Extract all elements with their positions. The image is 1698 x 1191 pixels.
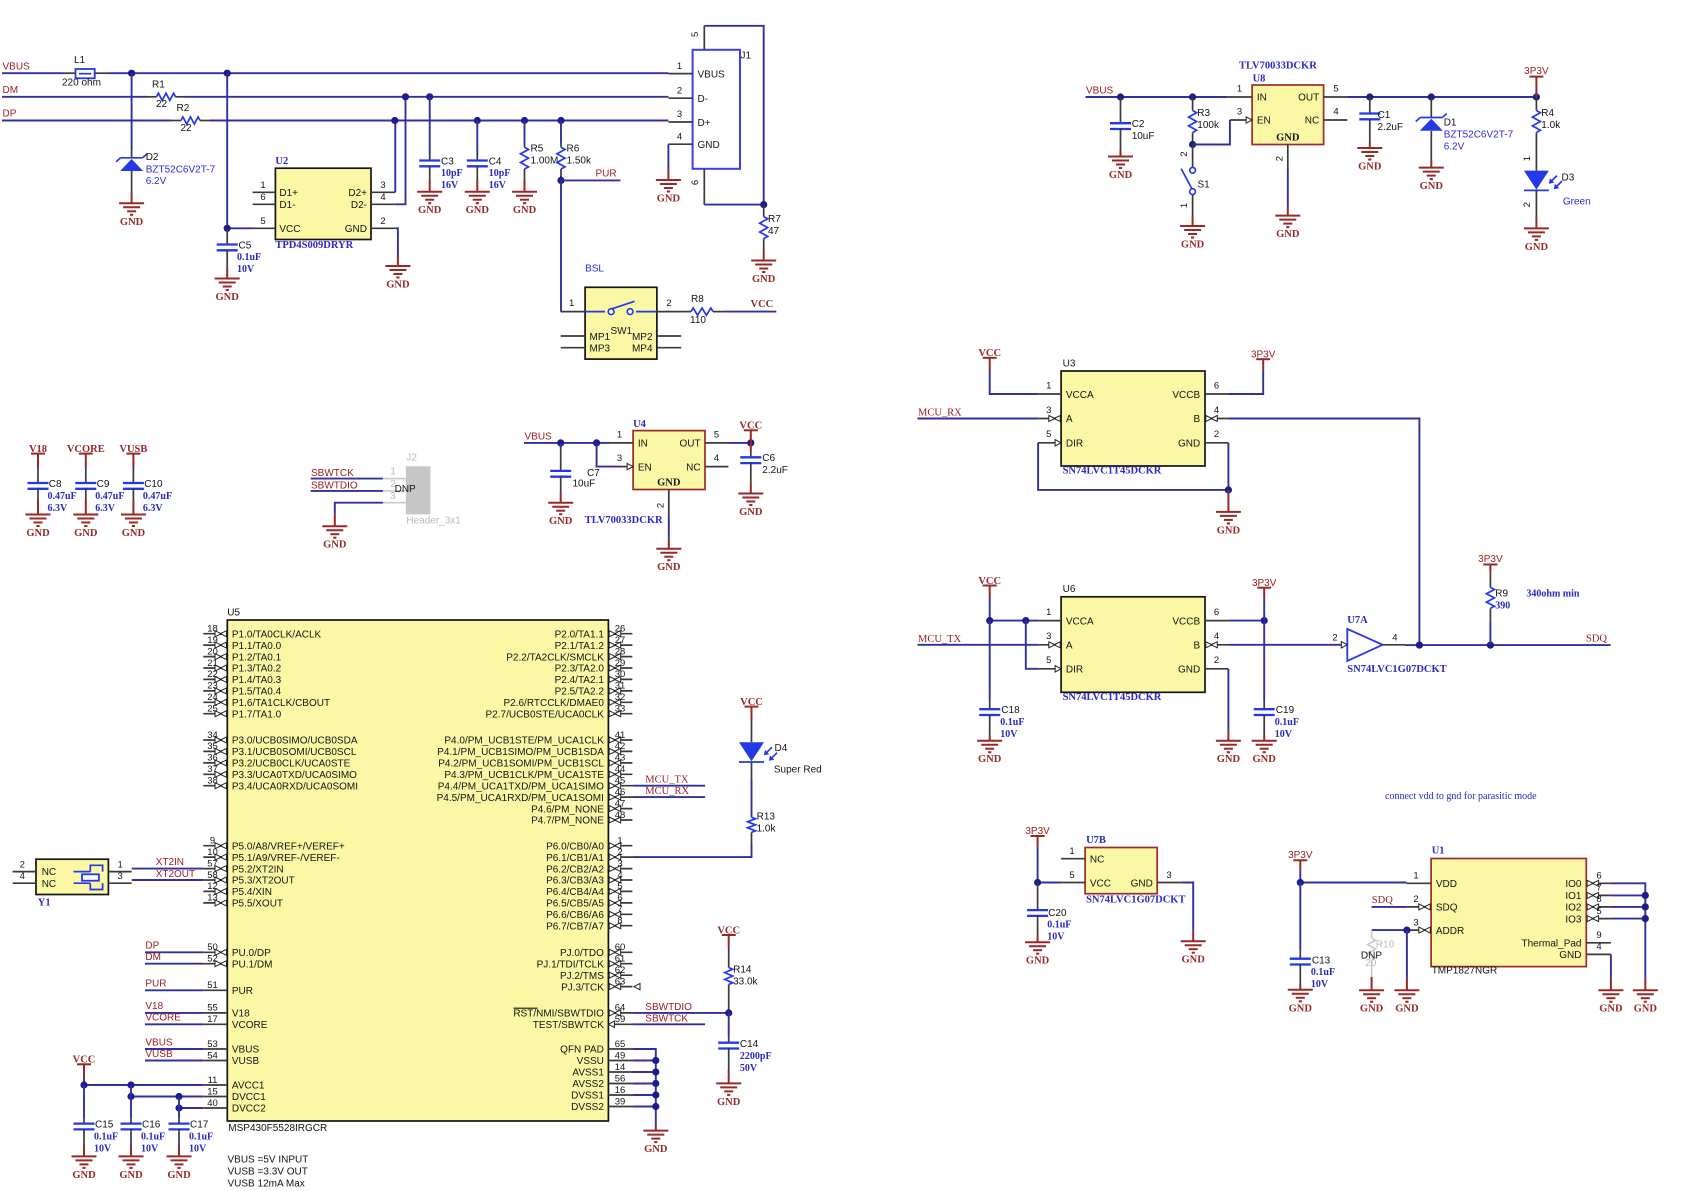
svg-text:DIR: DIR <box>1066 664 1083 675</box>
svg-text:6: 6 <box>617 893 622 904</box>
svg-text:D4: D4 <box>775 743 788 754</box>
svg-text:P5.2/XT2IN: P5.2/XT2IN <box>232 864 284 875</box>
svg-text:2: 2 <box>1522 202 1533 207</box>
svg-text:D3: D3 <box>1562 173 1575 184</box>
capacitor C18 <box>989 621 991 700</box>
wire U3 B to U7A output node <box>1228 419 1419 646</box>
svg-text:18: 18 <box>207 624 218 635</box>
svg-text:VBUS: VBUS <box>232 1045 260 1056</box>
ground below S1 <box>1192 216 1194 226</box>
IC U1 TMP1827NGR <box>1406 845 1611 966</box>
svg-text:5: 5 <box>690 32 701 37</box>
svg-text:6.2V: 6.2V <box>1444 142 1465 153</box>
ground below R5 <box>524 180 526 192</box>
svg-text:GND: GND <box>1559 950 1581 961</box>
svg-text:EN: EN <box>1257 116 1271 127</box>
capacitor C9 <box>85 468 87 483</box>
svg-text:2: 2 <box>656 503 667 508</box>
svg-text:6.2V: 6.2V <box>146 176 167 187</box>
svg-text:52: 52 <box>207 954 218 965</box>
svg-text:IO1: IO1 <box>1565 891 1582 902</box>
svg-text:P1.1/TA0.0: P1.1/TA0.0 <box>232 641 282 652</box>
svg-text:Y1: Y1 <box>38 897 51 908</box>
crystal Y1 <box>13 859 132 908</box>
ground below J1 pin4 <box>667 170 669 180</box>
svg-text:390: 390 <box>1495 600 1510 611</box>
svg-text:61: 61 <box>615 954 626 965</box>
capacitor C19 <box>1263 621 1265 700</box>
wire C17 drop <box>178 1097 180 1109</box>
svg-text:37: 37 <box>207 764 218 775</box>
svg-text:R9: R9 <box>1495 588 1508 599</box>
svg-text:C10: C10 <box>144 479 163 490</box>
junction DM/D2- <box>402 93 409 100</box>
svg-text:5: 5 <box>617 881 622 892</box>
resistor R10 (DNP, ghost) <box>1368 930 1376 977</box>
svg-text:C13: C13 <box>1312 956 1331 967</box>
ground below C14 <box>728 1070 730 1083</box>
svg-text:3: 3 <box>617 858 622 869</box>
svg-text:C18: C18 <box>1001 705 1020 716</box>
wire U2 D2+ to DP <box>394 121 396 193</box>
wire V18 stub <box>145 1012 203 1014</box>
svg-text:28: 28 <box>615 646 626 657</box>
svg-text:R6: R6 <box>567 143 580 154</box>
svg-text:VBUS: VBUS <box>3 62 31 73</box>
svg-text:34: 34 <box>207 730 218 741</box>
ground below C18 <box>989 735 991 741</box>
svg-text:SBWTDIO: SBWTDIO <box>311 480 358 491</box>
svg-text:C17: C17 <box>190 1120 209 1131</box>
wire U6 GND pin down <box>1227 669 1229 731</box>
svg-text:3: 3 <box>1413 917 1418 928</box>
svg-text:P4.0/PM_UCB1STE/PM_UCA1CLK: P4.0/PM_UCB1STE/PM_UCA1CLK <box>444 736 604 747</box>
svg-text:GND: GND <box>1181 240 1205 251</box>
junction J1 pin6 / R7 <box>760 201 767 208</box>
svg-text:4: 4 <box>380 192 385 203</box>
ground below D1 <box>1430 160 1432 168</box>
svg-text:SDQ: SDQ <box>1436 903 1458 914</box>
svg-text:1.0k: 1.0k <box>757 823 777 834</box>
svg-text:38: 38 <box>207 776 218 787</box>
svg-text:GND: GND <box>386 280 410 291</box>
wire QFN/VSS bus <box>632 1049 655 1125</box>
svg-text:GND: GND <box>345 224 367 235</box>
svg-text:QFN PAD: QFN PAD <box>560 1045 604 1056</box>
ground below C17 <box>178 1145 180 1156</box>
svg-text:DVSS1: DVSS1 <box>571 1091 604 1102</box>
capacitor C6 <box>750 443 752 452</box>
svg-text:P6.5/CB5/A5: P6.5/CB5/A5 <box>546 899 604 910</box>
svg-text:R13: R13 <box>757 812 776 823</box>
svg-text:BSL: BSL <box>585 264 604 275</box>
svg-text:NC: NC <box>42 867 56 878</box>
svg-text:10V: 10V <box>94 1143 112 1154</box>
ground below D2 <box>131 193 133 203</box>
svg-text:VUSB: VUSB <box>145 1049 173 1060</box>
svg-text:39: 39 <box>615 1096 626 1107</box>
inductor L1 <box>63 72 76 74</box>
svg-text:P5.4/XIN: P5.4/XIN <box>232 887 272 898</box>
svg-text:29: 29 <box>615 658 626 669</box>
svg-text:OUT: OUT <box>679 439 700 450</box>
svg-text:DP: DP <box>3 109 17 120</box>
svg-text:10: 10 <box>207 847 218 858</box>
svg-text:31: 31 <box>615 681 626 692</box>
svg-text:VCC: VCC <box>73 1055 96 1066</box>
ground below C16 <box>130 1145 132 1156</box>
wire SBWTCK to J2 <box>311 478 383 480</box>
ground below U4 <box>668 539 670 549</box>
svg-text:P1.3/TA0.2: P1.3/TA0.2 <box>232 664 282 675</box>
resistor R13 <box>748 817 756 832</box>
svg-text:1: 1 <box>1413 871 1418 882</box>
junction C16 mid <box>127 1093 134 1100</box>
ground below C2 <box>1120 150 1122 157</box>
svg-text:C9: C9 <box>97 479 110 490</box>
svg-text:SN74LVC1G07DCKT: SN74LVC1G07DCKT <box>1086 894 1185 905</box>
U5 pin63 TCK input arrow <box>634 983 640 989</box>
svg-text:51: 51 <box>207 980 218 991</box>
svg-text:GND: GND <box>1131 878 1153 889</box>
svg-text:26: 26 <box>615 624 626 635</box>
svg-text:50V: 50V <box>740 1063 758 1074</box>
wire AVCC1 rail <box>84 1084 203 1086</box>
svg-text:Green: Green <box>1563 196 1591 207</box>
svg-text:10pF: 10pF <box>441 168 463 179</box>
capacitor C14 <box>728 1013 730 1037</box>
svg-text:P4.5/PM_UCA1RXD/PM_UCA1SOMI: P4.5/PM_UCA1RXD/PM_UCA1SOMI <box>437 793 604 804</box>
svg-text:GND: GND <box>1253 754 1277 765</box>
ground below J2 pin3 <box>334 514 336 526</box>
ground below R7 <box>763 250 765 261</box>
svg-text:MP4: MP4 <box>632 344 653 355</box>
capacitor C20 <box>1037 883 1039 910</box>
wire U3 DIR tie to GND <box>1038 443 1228 490</box>
wire J1 pin5 loop to pin6/R7 <box>704 26 763 205</box>
svg-text:J1: J1 <box>741 51 752 62</box>
svg-text:6.3V: 6.3V <box>48 503 69 514</box>
svg-text:GND: GND <box>1178 664 1200 675</box>
wire SDQ to U1 <box>1372 906 1407 908</box>
capacitor C7 <box>560 443 562 448</box>
junction VBUS/EN <box>593 439 600 446</box>
svg-text:SDQ: SDQ <box>1372 895 1393 906</box>
svg-text:P3.4/UCA0RXD/UCA0SOMI: P3.4/UCA0RXD/UCA0SOMI <box>232 781 358 792</box>
svg-text:connect vdd to gnd for parasit: connect vdd to gnd for parasitic mode <box>1385 791 1537 802</box>
junction IO3 <box>1642 915 1649 922</box>
junction U3 GND <box>1225 486 1232 493</box>
junction rail/R4/3P3V <box>1533 93 1540 100</box>
svg-text:10V: 10V <box>1047 932 1065 943</box>
IC U6 SN74LVC1T45DCKR <box>1038 584 1228 692</box>
svg-text:10V: 10V <box>189 1143 207 1154</box>
svg-text:GND: GND <box>1217 754 1241 765</box>
resistor R3 <box>1192 97 1194 111</box>
svg-text:10V: 10V <box>237 264 255 275</box>
svg-text:47: 47 <box>768 226 780 237</box>
ground below U7B <box>1192 931 1194 941</box>
svg-text:GND: GND <box>72 1170 96 1181</box>
svg-text:C14: C14 <box>740 1039 759 1050</box>
junction C17 top <box>175 1093 182 1100</box>
svg-text:R1: R1 <box>152 80 165 91</box>
svg-text:TMP1827NGR: TMP1827NGR <box>1432 966 1498 977</box>
svg-text:50: 50 <box>207 942 218 953</box>
svg-text:4: 4 <box>1333 106 1338 117</box>
capacitor C10 <box>132 468 134 483</box>
svg-text:VCCA: VCCA <box>1066 390 1094 401</box>
svg-text:1: 1 <box>617 836 622 847</box>
svg-text:GND: GND <box>1276 229 1300 240</box>
power port 3P3V (R9) <box>1483 564 1497 566</box>
svg-text:GND: GND <box>978 754 1002 765</box>
svg-text:C15: C15 <box>95 1120 114 1131</box>
svg-text:A: A <box>1066 414 1073 425</box>
junction DVSS2 <box>652 1103 659 1110</box>
svg-text:16V: 16V <box>441 180 459 191</box>
junction ADDR <box>1403 927 1410 934</box>
LED D4 (Super Red) <box>751 719 753 742</box>
svg-text:PJ.1/TDI/TCLK: PJ.1/TDI/TCLK <box>537 959 605 970</box>
svg-text:GND: GND <box>1217 525 1241 536</box>
svg-text:GND: GND <box>216 292 240 303</box>
svg-text:1: 1 <box>260 180 265 191</box>
wire EN loop U4 <box>597 443 621 467</box>
svg-text:47: 47 <box>615 798 626 809</box>
svg-text:DVSS2: DVSS2 <box>571 1102 604 1113</box>
svg-text:BZT52C6V2T-7: BZT52C6V2T-7 <box>146 164 216 175</box>
svg-text:P6.2/CB2/A2: P6.2/CB2/A2 <box>546 864 604 875</box>
svg-text:6: 6 <box>690 180 701 185</box>
svg-text:NC: NC <box>686 462 700 473</box>
svg-text:5: 5 <box>1333 83 1338 94</box>
svg-text:C19: C19 <box>1276 705 1295 716</box>
svg-text:0.1uF: 0.1uF <box>189 1131 213 1142</box>
svg-text:VBUS: VBUS <box>698 69 726 80</box>
wire R8 to VCC <box>724 311 776 313</box>
svg-text:U5: U5 <box>227 608 240 619</box>
svg-text:6: 6 <box>1214 607 1219 618</box>
svg-text:TPD4S009DRYR: TPD4S009DRYR <box>275 240 353 251</box>
svg-text:P3.0/UCB0SIMO/UCB0SDA: P3.0/UCB0SIMO/UCB0SDA <box>232 736 358 747</box>
svg-text:15: 15 <box>207 1086 218 1097</box>
svg-text:GND: GND <box>644 1144 668 1155</box>
junction DVSS1 <box>652 1091 659 1098</box>
capacitor C17 <box>178 1108 180 1118</box>
svg-text:GND: GND <box>323 540 347 551</box>
svg-text:SN74LVC1T45DCKR: SN74LVC1T45DCKR <box>1063 466 1162 477</box>
ground below C9 <box>85 500 87 515</box>
svg-text:VUSB: VUSB <box>232 1056 260 1067</box>
svg-text:65: 65 <box>615 1039 626 1050</box>
svg-text:J2: J2 <box>406 453 417 464</box>
svg-text:0.1uF: 0.1uF <box>1000 717 1024 728</box>
svg-text:GND: GND <box>1289 1003 1313 1014</box>
switch S1 <box>1192 145 1194 168</box>
ground below IO bus <box>1644 979 1646 991</box>
LED D3 (Green) <box>1535 145 1537 171</box>
wire XT2IN <box>132 868 204 870</box>
svg-text:0.47uF: 0.47uF <box>95 491 124 502</box>
svg-text:R7: R7 <box>768 214 781 225</box>
svg-text:D1+: D1+ <box>279 188 298 199</box>
svg-text:NC: NC <box>1090 855 1104 866</box>
svg-text:GND: GND <box>739 507 763 518</box>
svg-text:MCU_TX: MCU_TX <box>645 774 689 785</box>
svg-text:56: 56 <box>615 1073 626 1084</box>
ground below R10 <box>1371 977 1373 990</box>
svg-text:0.47uF: 0.47uF <box>143 491 172 502</box>
ground below C6 <box>750 483 752 494</box>
IC U4 TLV70033DCKR <box>610 419 729 516</box>
svg-text:P5.0/A8/VREF+/VEREF+: P5.0/A8/VREF+/VEREF+ <box>232 841 345 852</box>
svg-text:VUSB 12mA Max: VUSB 12mA Max <box>228 1179 305 1190</box>
svg-text:45: 45 <box>615 776 626 787</box>
svg-text:VCORE: VCORE <box>67 444 105 455</box>
power port 3P3V (U8) <box>1529 76 1543 78</box>
connector J1 <box>668 26 751 205</box>
svg-text:P2.5/TA2.2: P2.5/TA2.2 <box>555 687 605 698</box>
svg-text:3P3V: 3P3V <box>1252 578 1277 589</box>
svg-text:4: 4 <box>1596 942 1601 953</box>
svg-text:RST/NMI/SBWTDIO: RST/NMI/SBWTDIO <box>513 1009 604 1020</box>
svg-text:AVCC1: AVCC1 <box>232 1081 265 1092</box>
svg-text:DNP: DNP <box>1361 950 1382 961</box>
svg-text:DVCC2: DVCC2 <box>232 1104 266 1115</box>
svg-text:P5.3/XT2OUT: P5.3/XT2OUT <box>232 876 295 887</box>
svg-text:1: 1 <box>390 467 396 478</box>
junction R3/S1/EN <box>1189 141 1196 148</box>
svg-text:GND: GND <box>1634 1004 1658 1015</box>
svg-text:U7B: U7B <box>1086 835 1106 846</box>
wire VCC to U3 VCCA <box>990 370 1038 394</box>
svg-text:GND: GND <box>657 194 681 205</box>
U5 right pins <box>437 624 633 1114</box>
svg-text:GND: GND <box>657 477 681 488</box>
svg-text:P2.2/TA2CLK/SMCLK: P2.2/TA2CLK/SMCLK <box>506 652 604 663</box>
capacitor C5 <box>226 228 228 244</box>
MCU U5 MSP430F5528IRGCR <box>227 608 608 1134</box>
svg-text:64: 64 <box>615 1003 626 1014</box>
junction IO1 <box>1642 892 1649 899</box>
svg-text:4: 4 <box>1214 405 1219 416</box>
svg-text:0.1uF: 0.1uF <box>94 1131 118 1142</box>
svg-text:3: 3 <box>677 109 682 120</box>
svg-text:GND: GND <box>1360 1004 1384 1015</box>
power port VCC (U5 left) <box>77 1063 91 1065</box>
svg-text:SBWTCK: SBWTCK <box>645 1014 688 1025</box>
svg-text:3P3V: 3P3V <box>1524 66 1549 77</box>
svg-text:0.1uF: 0.1uF <box>1275 717 1299 728</box>
svg-text:2: 2 <box>1214 655 1219 666</box>
svg-text:16V: 16V <box>489 180 507 191</box>
svg-text:22: 22 <box>181 123 193 134</box>
junction DP/D2+ <box>391 117 398 124</box>
svg-text:D1: D1 <box>1444 117 1457 128</box>
svg-text:63: 63 <box>615 976 626 987</box>
ground below C20 <box>1037 935 1039 942</box>
svg-text:DIR: DIR <box>1066 438 1083 449</box>
capacitor C13 <box>1299 883 1301 951</box>
svg-text:GND: GND <box>513 205 537 216</box>
svg-text:D2: D2 <box>146 152 159 163</box>
svg-text:41: 41 <box>615 730 626 741</box>
svg-text:PJ.0/TDO: PJ.0/TDO <box>560 948 604 959</box>
svg-text:GND: GND <box>122 528 146 539</box>
svg-text:U7A: U7A <box>1347 615 1368 626</box>
svg-text:SBWTCK: SBWTCK <box>311 468 354 479</box>
svg-text:PJ.2/TMS: PJ.2/TMS <box>560 971 604 982</box>
svg-text:4: 4 <box>1392 632 1397 643</box>
wire VBUS to U8 IN <box>1086 96 1121 98</box>
svg-text:R3: R3 <box>1197 108 1210 119</box>
svg-text:110: 110 <box>690 315 706 326</box>
svg-text:42: 42 <box>615 741 626 752</box>
svg-text:VCC: VCC <box>739 421 762 432</box>
svg-text:10uF: 10uF <box>573 479 596 490</box>
svg-text:P1.4/TA0.3: P1.4/TA0.3 <box>232 675 282 686</box>
svg-text:25: 25 <box>207 704 218 715</box>
svg-text:P2.0/TA1.1: P2.0/TA1.1 <box>555 629 605 640</box>
svg-text:4: 4 <box>1214 631 1219 642</box>
svg-text:VCC: VCC <box>279 224 300 235</box>
svg-text:P4.7/PM_NONE: P4.7/PM_NONE <box>531 816 604 827</box>
ground below C10 <box>132 500 134 515</box>
svg-text:P6.7/CB7/A7: P6.7/CB7/A7 <box>546 921 604 932</box>
svg-text:MSP430F5528IRGCR: MSP430F5528IRGCR <box>228 1123 327 1134</box>
svg-text:6.3V: 6.3V <box>95 503 116 514</box>
svg-text:0.47uF: 0.47uF <box>48 491 77 502</box>
svg-text:VBUS =5V INPUT: VBUS =5V INPUT <box>228 1155 309 1166</box>
wire VBUS to U4 IN <box>524 442 561 444</box>
svg-text:3: 3 <box>1237 106 1242 117</box>
svg-text:21: 21 <box>207 658 218 669</box>
wire U2 VCC to C5 <box>227 227 252 229</box>
svg-text:P3.2/UCB0CLK/UCA0STE: P3.2/UCB0CLK/UCA0STE <box>232 759 351 770</box>
wire DP stub <box>145 951 203 953</box>
svg-text:ADDR: ADDR <box>1436 926 1464 937</box>
svg-text:GND: GND <box>657 562 681 573</box>
ground below C5 <box>226 268 228 279</box>
resistor R7 <box>763 205 765 217</box>
svg-text:P1.5/TA0.4: P1.5/TA0.4 <box>232 687 282 698</box>
svg-text:XT2IN: XT2IN <box>156 857 184 868</box>
svg-text:MCU_RX: MCU_RX <box>918 408 962 419</box>
wire MCU_RX to U3 A <box>918 418 1039 420</box>
U5 left pins <box>203 624 358 1115</box>
svg-text:5: 5 <box>260 216 265 227</box>
svg-text:DM: DM <box>3 85 19 96</box>
svg-text:59: 59 <box>615 1014 626 1025</box>
svg-text:GND: GND <box>1599 1004 1623 1015</box>
svg-text:AVSS2: AVSS2 <box>572 1079 604 1090</box>
svg-text:P3.1/UCB0SOMI/UCB0SCL: P3.1/UCB0SOMI/UCB0SCL <box>232 747 357 758</box>
svg-text:7: 7 <box>1596 883 1601 894</box>
junction VCCB/C19 <box>1261 617 1268 624</box>
wire VBUS down to C5/VCC <box>226 73 228 228</box>
junction U7A/U3-B <box>1416 642 1423 649</box>
ground below C3 <box>429 180 431 192</box>
svg-text:1: 1 <box>1046 380 1051 391</box>
wire VBUS rail <box>2 72 63 74</box>
junction VBUS/R3 <box>1189 93 1196 100</box>
svg-text:30: 30 <box>615 669 626 680</box>
junction IO2 <box>1642 903 1649 910</box>
svg-text:12: 12 <box>207 881 218 892</box>
svg-text:R4: R4 <box>1541 108 1554 119</box>
svg-text:C8: C8 <box>49 479 62 490</box>
